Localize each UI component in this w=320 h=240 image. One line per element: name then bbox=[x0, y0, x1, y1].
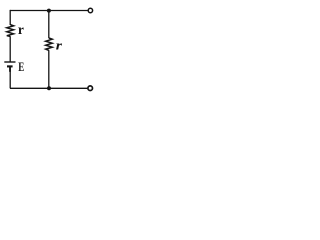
wire left branch upper bbox=[9, 10, 11, 25]
battery E long plate bbox=[4, 61, 15, 63]
terminal top right bbox=[88, 8, 92, 12]
battery E short plate bbox=[7, 65, 13, 67]
resistor r2 (middle) bbox=[46, 38, 53, 50]
wire middle branch lower bbox=[48, 50, 50, 88]
svg-text:r: r bbox=[56, 37, 63, 52]
svg-text:E: E bbox=[18, 60, 24, 74]
wire left branch lower bbox=[9, 67, 11, 89]
bottom rail wire bbox=[10, 87, 87, 89]
wire middle branch upper bbox=[48, 11, 50, 39]
terminal bottom right bbox=[88, 86, 93, 91]
junction dot bottom bbox=[47, 86, 51, 90]
wire left branch middle bbox=[9, 36, 11, 62]
resistor r1 (left) bbox=[7, 25, 14, 37]
junction dot top bbox=[47, 9, 51, 13]
svg-text:r: r bbox=[18, 22, 24, 37]
battery stub below short plate bbox=[9, 67, 11, 72]
top rail wire bbox=[10, 10, 88, 12]
